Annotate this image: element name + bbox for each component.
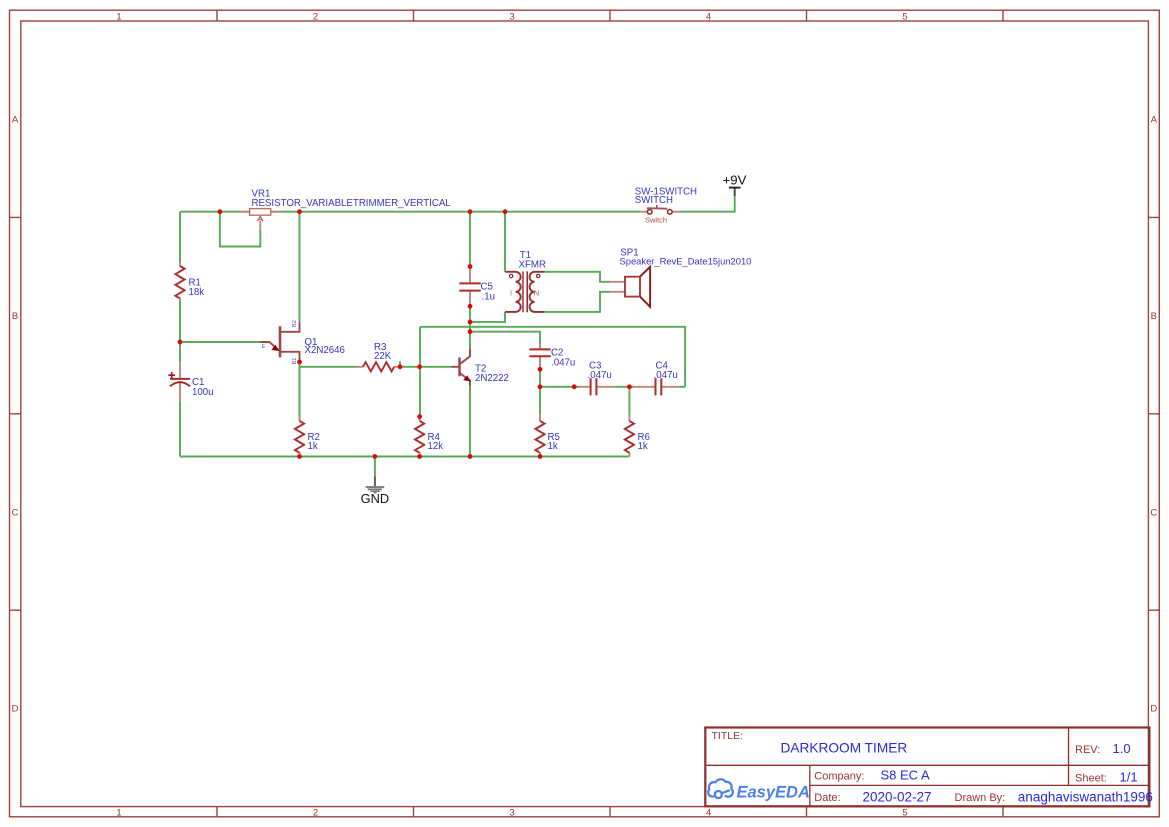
transistor Q1 (UJT) [261, 322, 300, 362]
wire top rail [180, 211, 640, 213]
wire phase row C3-C4 [615, 386, 634, 388]
svg-text:Switch: Switch [645, 215, 667, 224]
svg-text:B: B [1151, 311, 1157, 322]
label T1 [519, 250, 546, 270]
speaker SP1 [610, 267, 650, 307]
node top rail T1 [503, 209, 508, 214]
wire left rail mid [179, 302, 181, 362]
svg-text:Date:: Date: [814, 792, 840, 804]
svg-text:C: C [12, 507, 19, 518]
wire B2 vertical [299, 212, 301, 322]
node C5 upper [468, 264, 473, 269]
node C4-R6 [627, 384, 632, 389]
wire B1 to R2 [299, 362, 301, 421]
svg-text:3: 3 [509, 11, 514, 22]
SCHEMATIC WIRES [180, 196, 735, 476]
svg-text:Speaker_RevE_Date15jun2010: Speaker_RevE_Date15jun2010 [620, 256, 752, 267]
svg-text:5: 5 [902, 807, 907, 818]
svg-text:A: A [12, 115, 19, 126]
node top rail VR1 left [218, 209, 223, 214]
wire C5 stem top [469, 212, 471, 267]
transformer T1 [505, 271, 544, 312]
wire T1 primary top [504, 212, 506, 272]
wire emitter Q1 [180, 341, 261, 343]
capacitor C1 [168, 362, 190, 400]
svg-text:Drawn By:: Drawn By: [955, 792, 1006, 804]
svg-text:4: 4 [706, 11, 711, 22]
label C5 [481, 282, 495, 303]
node C3 left [572, 384, 577, 389]
wire C2 bottom [539, 369, 541, 387]
svg-text:.1u: .1u [482, 292, 495, 303]
svg-text:1.0: 1.0 [1113, 741, 1131, 756]
node primary return [468, 320, 473, 325]
node top rail C5 [468, 209, 473, 214]
svg-text:RESISTOR_VARIABLETRIMMER_VERTI: RESISTOR_VARIABLETRIMMER_VERTICAL [252, 198, 452, 209]
label R4 [428, 432, 444, 452]
svg-text:SWITCH: SWITCH [635, 195, 673, 206]
ground GND [361, 476, 389, 506]
logo EasyEDA cloud icon [708, 779, 733, 798]
svg-text:4: 4 [706, 807, 711, 818]
wire phase row C4 right [679, 386, 685, 388]
wire phase row C2-C3 [540, 386, 579, 388]
node bottom R2 [297, 454, 302, 459]
svg-text:DARKROOM TIMER: DARKROOM TIMER [781, 741, 908, 756]
svg-text:2020-02-27: 2020-02-27 [863, 789, 932, 804]
svg-text:X2N2646: X2N2646 [305, 345, 345, 356]
svg-text:.047u: .047u [654, 370, 678, 381]
wire C5 stem bottom [469, 306, 471, 348]
svg-text:1k: 1k [308, 441, 318, 452]
capacitor C2 [529, 344, 550, 370]
node C1 top [178, 340, 183, 345]
label SW-1 [635, 187, 697, 207]
ruler letters right [1150, 115, 1157, 715]
wire VR1 wiper loop [220, 212, 260, 247]
node bottom T2e [468, 454, 473, 459]
svg-text:B2: B2 [292, 320, 298, 327]
svg-text:100u: 100u [192, 387, 214, 398]
svg-text:22K: 22K [374, 351, 392, 362]
wire T1 secondary to speaker bottom [545, 292, 611, 312]
switch SW-1 [640, 205, 679, 214]
capacitor C5 [459, 267, 480, 306]
node collector [468, 329, 473, 334]
svg-text:3: 3 [509, 807, 514, 818]
node C5 lower [468, 304, 473, 309]
wire left rail upper [179, 212, 181, 262]
label R3 [374, 342, 392, 362]
svg-text:B1: B1 [292, 358, 298, 365]
wire left rail lower [179, 401, 181, 457]
svg-text:EasyEDA: EasyEDA [737, 784, 810, 802]
svg-text:.047u: .047u [551, 358, 575, 369]
node base junction [417, 364, 422, 369]
svg-text:.047u: .047u [588, 370, 612, 381]
label Q1 [305, 337, 345, 356]
label R2 [308, 432, 320, 452]
resistor R3 [356, 362, 401, 371]
capacitor C4 [634, 378, 679, 395]
node bottom R4 [417, 454, 422, 459]
node R4 top [417, 414, 422, 419]
svg-text:1/1: 1/1 [1120, 770, 1138, 785]
wire R2 top gap [299, 367, 301, 421]
wire top rail right of switch to +9V [679, 196, 735, 212]
wire base row Q1 to R3 [300, 366, 356, 368]
label VR1 [252, 188, 452, 209]
wire R3 to T2 base [400, 366, 452, 368]
svg-text:E: E [262, 344, 266, 350]
wire stub at R3 node [399, 361, 401, 367]
label C2 [551, 347, 575, 368]
svg-text:1k: 1k [548, 441, 558, 452]
wire GND stem [374, 457, 376, 477]
wire bottom rail [180, 456, 629, 458]
svg-text:Company:: Company: [814, 770, 864, 782]
variable resistor VR1 [240, 209, 279, 230]
label T2 [475, 363, 509, 384]
svg-text:GND: GND [361, 491, 389, 506]
wire R4 branch vertical [419, 327, 421, 417]
svg-text:N: N [534, 288, 539, 297]
JUNCTION DOTS [178, 209, 632, 459]
wire feedback rail [420, 327, 685, 387]
svg-text:C: C [1150, 507, 1157, 518]
svg-text:D: D [12, 704, 19, 715]
ruler numbers bottom [116, 807, 907, 818]
label R1 [189, 278, 205, 298]
svg-text:REV:: REV: [1075, 744, 1100, 756]
svg-text:I: I [510, 288, 512, 297]
label SP1 [620, 247, 752, 266]
node R3 right [398, 364, 403, 369]
ruler letters left [12, 115, 19, 715]
svg-text:18k: 18k [189, 287, 205, 298]
resistor R4 [415, 417, 424, 457]
label R6 [638, 432, 650, 452]
svg-text:1: 1 [116, 807, 121, 818]
wire T1 primary return [470, 312, 505, 322]
svg-text:1: 1 [116, 11, 121, 22]
node C2 bottom pin [538, 367, 543, 372]
svg-text:TITLE:: TITLE: [712, 730, 744, 742]
title block frame [705, 728, 1149, 807]
svg-text:B: B [12, 311, 18, 322]
wire T2 collector to C2 [470, 332, 540, 344]
resistor R1 [175, 262, 184, 302]
wire R6 branch [628, 387, 630, 415]
wire T1 secondary to speaker top [545, 272, 611, 282]
svg-text:2: 2 [313, 11, 318, 22]
svg-text:1k: 1k [638, 441, 648, 452]
svg-text:D: D [1150, 704, 1157, 715]
node Q1 B1 [297, 360, 302, 365]
svg-text:Sheet:: Sheet: [1075, 773, 1107, 785]
svg-text:A: A [1151, 115, 1158, 126]
label C4 [654, 361, 678, 381]
svg-text:+9V: +9V [723, 173, 747, 188]
resistor R6 [625, 415, 634, 457]
svg-text:2N2222: 2N2222 [475, 373, 509, 384]
svg-text:12k: 12k [428, 441, 444, 452]
svg-text:S8 EC A: S8 EC A [881, 768, 930, 783]
wire R5 branch [539, 387, 541, 415]
node bottom GND [373, 454, 378, 459]
label R5 [548, 432, 560, 452]
ruler numbers top [116, 11, 907, 22]
resistor R5 [535, 415, 544, 457]
svg-text:5: 5 [902, 11, 907, 22]
transistor T2 (2N2222) [452, 348, 471, 386]
node C2-R5 [538, 384, 543, 389]
label C1 [192, 377, 214, 398]
wire T2 emitter down [469, 386, 471, 456]
node top rail B2 [297, 209, 302, 214]
power +9V [723, 173, 747, 197]
capacitor C3 [579, 378, 615, 395]
resistor R2 [295, 417, 304, 457]
label C3 [588, 361, 612, 381]
svg-text:2: 2 [313, 807, 318, 818]
node bottom R5 [538, 454, 543, 459]
svg-text:anaghaviswanath1996: anaghaviswanath1996 [1018, 789, 1153, 804]
svg-text:XFMR: XFMR [519, 259, 546, 270]
